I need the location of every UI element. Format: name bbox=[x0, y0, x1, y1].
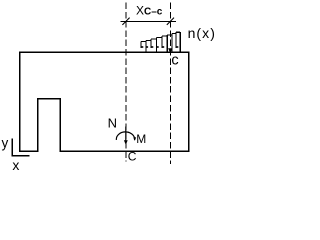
svg-text:XC–c: XC–c bbox=[136, 4, 163, 18]
load arrow a5 bbox=[161, 36, 163, 48]
load bar v4 bbox=[155, 37, 157, 51]
load bar v2 bbox=[145, 40, 147, 51]
svg-text:x: x bbox=[12, 157, 19, 172]
load cap 8 bbox=[176, 31, 180, 33]
svg-text:n(x): n(x) bbox=[188, 25, 216, 41]
distributed load n(x): stepped bars bbox=[141, 32, 180, 51]
load arrow a1 bbox=[140, 42, 142, 49]
moment M arc bbox=[116, 132, 134, 140]
oblique tick right bbox=[167, 18, 174, 25]
oblique tick left bbox=[122, 18, 129, 25]
svg-text:N: N bbox=[108, 116, 117, 131]
load arrow a3 bbox=[150, 39, 152, 48]
normal force N arrow bbox=[125, 127, 127, 142]
load arrow a8 bbox=[175, 32, 177, 48]
load cap 3 bbox=[151, 38, 156, 40]
load cap 6 bbox=[167, 34, 172, 36]
resultant arrowhead at c bbox=[168, 48, 172, 53]
moment arrowhead bbox=[133, 137, 136, 141]
svg-text:M: M bbox=[136, 132, 146, 146]
load cap 1 bbox=[141, 41, 146, 43]
dashed centerline through c bbox=[169, 3, 171, 165]
dashed centerline through C bbox=[125, 3, 127, 162]
load cap 4 bbox=[156, 36, 162, 38]
load cap 7 bbox=[172, 33, 176, 35]
svg-text:c: c bbox=[171, 53, 178, 69]
dimension line Xc-c bbox=[120, 20, 176, 22]
load bar v7 bbox=[171, 34, 173, 52]
axis y-x bbox=[12, 139, 29, 156]
svg-text:C: C bbox=[128, 149, 137, 163]
load bar v9 right edge bbox=[179, 32, 181, 51]
load cap 2 bbox=[146, 39, 151, 41]
load bar v6 bbox=[166, 35, 168, 52]
load arrow feet ticks bbox=[141, 46, 178, 48]
section outline bbox=[20, 52, 189, 151]
svg-text:y: y bbox=[2, 136, 9, 151]
load cap 5 bbox=[162, 35, 167, 37]
